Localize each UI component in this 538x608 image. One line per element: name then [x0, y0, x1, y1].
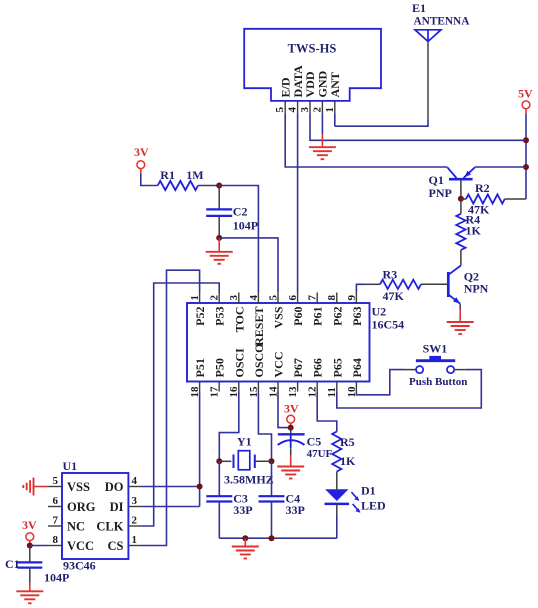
wire OSCO net [258, 392, 271, 462]
svg-text:P60: P60 [291, 307, 305, 326]
U2 bottom pin names P51 P50 OSCI OSCO VCC P67 P66 P65 P64 [193, 343, 364, 377]
svg-text:LED: LED [361, 499, 386, 513]
junction C2-VSS-ground [216, 235, 222, 241]
svg-text:P67: P67 [291, 358, 305, 377]
U2 top pin numbers 1-9 [189, 295, 358, 301]
svg-text:3V: 3V [284, 401, 299, 415]
svg-text:TWS-HS: TWS-HS [288, 42, 337, 56]
transistor Q2 NPN [448, 266, 488, 304]
wire SW1 to P65 [337, 370, 482, 408]
junction R1-C2-RESET [216, 183, 222, 189]
svg-text:8: 8 [326, 295, 338, 301]
svg-text:ORG: ORG [67, 500, 96, 514]
EEPROM U1 93C46 [62, 459, 128, 573]
wire R1 to node [198, 185, 219, 187]
TWS-HS pin labels E/D DATA VDD GND ANT [278, 65, 342, 98]
svg-text:5: 5 [274, 107, 286, 113]
svg-text:5V: 5V [518, 87, 533, 101]
svg-text:P66: P66 [311, 358, 325, 377]
wire RESET net [219, 186, 258, 293]
svg-text:P61: P61 [311, 307, 325, 326]
svg-text:TOC: TOC [232, 307, 246, 333]
wire ANT net [335, 113, 428, 126]
svg-text:P64: P64 [350, 358, 364, 377]
U1 right pin numbers [132, 475, 138, 546]
svg-text:1: 1 [324, 107, 336, 113]
svg-text:2: 2 [132, 515, 138, 527]
svg-text:Push Button: Push Button [409, 376, 467, 388]
wire E/D net [285, 113, 447, 167]
svg-text:3V: 3V [22, 518, 37, 532]
U2 bottom pin numbers 18-10 [189, 386, 358, 398]
wire P53 to CLK net [142, 283, 219, 526]
antenna pin [427, 42, 429, 121]
svg-text:NPN: NPN [464, 282, 489, 296]
svg-text:16C54: 16C54 [372, 318, 405, 332]
junction 3V-VCC-C1 [27, 543, 33, 549]
wire P66 to R5 [317, 392, 337, 432]
svg-text:4: 4 [248, 295, 260, 301]
svg-text:3: 3 [228, 295, 240, 301]
capacitor C3 33P [206, 461, 252, 538]
resistor R3 47K [365, 267, 447, 303]
power port 3V top-left [134, 145, 149, 174]
capacitor C5 47UF electrolytic [278, 428, 333, 460]
microcontroller U2 16C54 [187, 303, 404, 382]
svg-text:1K: 1K [340, 454, 356, 468]
svg-text:C5: C5 [307, 435, 322, 449]
svg-text:1K: 1K [466, 224, 482, 238]
capacitor C2 104P [206, 186, 258, 238]
svg-text:1: 1 [189, 295, 201, 301]
svg-text:CLK: CLK [96, 519, 123, 533]
resistor R5 1K [332, 432, 356, 472]
resistor R1 1M [158, 168, 204, 190]
wire DATA net [297, 113, 299, 292]
svg-text:9: 9 [346, 295, 358, 301]
wire 3V to U1 VCC [30, 545, 48, 547]
svg-text:8: 8 [53, 534, 59, 546]
transistor Q1 PNP [429, 167, 475, 200]
svg-text:6: 6 [53, 495, 59, 507]
svg-text:RESET: RESET [252, 307, 266, 346]
svg-text:1: 1 [132, 534, 138, 546]
ground U1 VSS rotated [23, 478, 48, 496]
svg-text:3V: 3V [134, 145, 149, 159]
svg-text:VCC: VCC [67, 539, 94, 553]
wire oscillator ground rail [219, 537, 336, 539]
svg-text:PNP: PNP [429, 186, 452, 200]
svg-text:7: 7 [307, 295, 319, 301]
junction 5V-VDD [523, 137, 529, 143]
wire Q1 emitter to 5V [475, 166, 526, 168]
svg-text:U2: U2 [372, 305, 387, 319]
LED D1 [325, 484, 387, 513]
svg-text:104P: 104P [44, 571, 69, 585]
U2 bottom pin stubs 18-10 [200, 382, 357, 392]
wire P63 to R3 [356, 284, 365, 292]
capacitor C4 33P [259, 461, 305, 538]
wire VSS net [219, 238, 278, 293]
wire P51 to DO/DI net [142, 392, 200, 507]
resistor R2 47K [461, 181, 526, 217]
ground under C5 [277, 455, 304, 479]
svg-text:P53: P53 [213, 307, 227, 326]
power port 3V bottom-left [22, 518, 37, 546]
svg-text:U1: U1 [63, 459, 78, 473]
svg-text:3: 3 [299, 107, 311, 113]
wire VDD net [310, 113, 526, 140]
svg-text:C1: C1 [5, 557, 20, 571]
svg-text:R1: R1 [160, 168, 175, 182]
svg-text:R3: R3 [383, 267, 398, 281]
svg-text:Q1: Q1 [429, 173, 444, 187]
svg-text:D1: D1 [361, 484, 376, 498]
antenna E1 [412, 1, 470, 42]
svg-text:6: 6 [287, 295, 299, 301]
svg-text:P63: P63 [350, 307, 364, 326]
junction Q1 base node [458, 196, 464, 202]
TWS-HS pin numbers 5 4 3 2 1 [274, 107, 336, 113]
resistor R4 1K [456, 199, 481, 266]
U2 top pin stubs 1-9 [200, 293, 357, 304]
junction rail ground tap [242, 535, 248, 541]
svg-text:17: 17 [209, 386, 221, 398]
svg-text:VCC: VCC [272, 352, 286, 378]
junction 5V-emitter [523, 164, 529, 170]
svg-text:OSCO: OSCO [252, 343, 266, 377]
svg-text:P52: P52 [193, 307, 207, 326]
svg-text:NC: NC [67, 519, 85, 533]
svg-text:VSS: VSS [272, 306, 286, 328]
push button SW1 [404, 342, 467, 389]
svg-text:2: 2 [209, 295, 221, 301]
TWS-HS pin stubs [285, 101, 335, 113]
capacitor C1 104P [5, 546, 69, 585]
ground under C1 [16, 583, 43, 604]
svg-text:13: 13 [287, 386, 299, 398]
svg-text:DO: DO [105, 480, 124, 494]
svg-text:R5: R5 [340, 435, 355, 449]
svg-text:Y1: Y1 [237, 435, 252, 449]
svg-text:3: 3 [132, 495, 138, 507]
svg-text:1M: 1M [186, 168, 203, 182]
wire 3V to R1 [141, 174, 158, 186]
module TWS-HS [244, 29, 381, 101]
wire GND pin to ground [321, 113, 323, 147]
wire OSCI net [219, 392, 239, 462]
svg-text:5: 5 [53, 475, 59, 487]
svg-text:ANTENNA: ANTENNA [414, 16, 471, 28]
svg-text:CS: CS [108, 539, 124, 553]
junction crystal right node [269, 458, 275, 464]
svg-text:4: 4 [132, 475, 138, 487]
svg-text:2: 2 [311, 107, 323, 113]
svg-text:VSS: VSS [67, 480, 90, 494]
U1 right pin names DO DI CLK CS [96, 480, 123, 553]
svg-text:3.58MHZ: 3.58MHZ [224, 473, 274, 487]
U1 left pin stubs 5 6 7 8 [48, 487, 62, 546]
U1 right pin stubs 4 3 2 1 [128, 487, 142, 546]
svg-text:E1: E1 [412, 1, 426, 15]
ground under C2 [206, 238, 233, 264]
svg-text:C2: C2 [233, 204, 248, 218]
power port 3V near C5 [284, 401, 299, 427]
svg-text:ANT: ANT [328, 72, 342, 97]
junction crystal left node [216, 458, 222, 464]
svg-text:DI: DI [110, 500, 124, 514]
U2 top pin names P52 P53 TOC RESET VSS P60 P61 P62 P63 [193, 306, 364, 346]
svg-text:P62: P62 [330, 307, 344, 326]
svg-text:7: 7 [53, 515, 59, 527]
svg-text:SW1: SW1 [423, 342, 448, 356]
svg-text:5: 5 [267, 295, 279, 301]
crystal Y1 3.58MHZ [219, 435, 273, 487]
wire P64 to SW1 [356, 370, 404, 395]
svg-text:47K: 47K [383, 289, 405, 303]
svg-text:4: 4 [287, 107, 299, 113]
wire 5V rail [525, 114, 527, 199]
svg-text:47UF: 47UF [307, 448, 333, 460]
U1 left pin numbers [53, 475, 59, 546]
ground TWS GND [309, 147, 336, 159]
LED cathode lead [336, 504, 338, 538]
svg-text:33P: 33P [286, 503, 305, 517]
junction rail C4 [269, 535, 275, 541]
Q1 base lead [460, 179, 462, 199]
ground under Q2 [447, 310, 474, 334]
Q2 emitter lead [459, 304, 461, 310]
R5 to LED lead [336, 472, 338, 490]
svg-text:P51: P51 [193, 358, 207, 377]
svg-text:OSCI: OSCI [232, 348, 246, 378]
svg-text:33P: 33P [233, 503, 252, 517]
svg-text:P50: P50 [213, 358, 227, 377]
power port 5V [518, 87, 533, 114]
ground under rail [232, 538, 259, 558]
svg-text:R2: R2 [475, 181, 490, 195]
junction VCC-C5 [288, 425, 294, 431]
svg-text:104P: 104P [233, 218, 258, 232]
wire P52 to CS net [142, 270, 200, 545]
junction DO node [197, 484, 203, 490]
U1 left pin names VSS ORG NC VCC [67, 480, 96, 553]
wire VCC net [278, 392, 291, 428]
svg-text:P65: P65 [330, 358, 344, 377]
